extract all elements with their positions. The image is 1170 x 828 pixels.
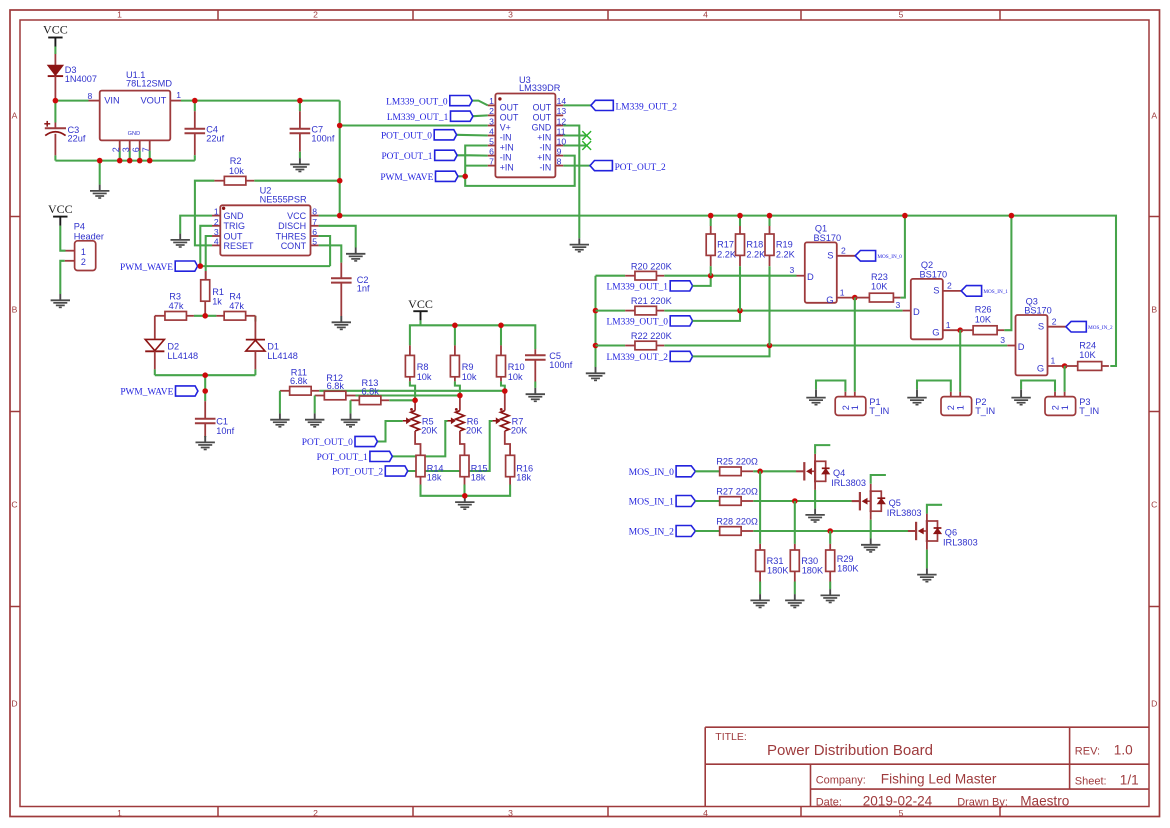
svg-text:100nf: 100nf — [311, 134, 334, 144]
svg-text:MOS_IN_0: MOS_IN_0 — [629, 467, 675, 478]
svg-text:5: 5 — [899, 808, 904, 818]
svg-text:PWM_WAVE: PWM_WAVE — [120, 263, 173, 273]
svg-text:POT_OUT_1: POT_OUT_1 — [381, 152, 432, 162]
svg-text:S: S — [933, 285, 939, 296]
svg-text:1nf: 1nf — [357, 284, 370, 294]
svg-text:3: 3 — [896, 300, 901, 310]
svg-text:MOS_IN_1: MOS_IN_1 — [629, 497, 675, 508]
svg-text:MOS_IN_0: MOS_IN_0 — [877, 254, 902, 260]
svg-text:1k: 1k — [212, 296, 222, 306]
svg-text:G: G — [932, 327, 939, 338]
svg-text:7: 7 — [489, 156, 494, 166]
svg-text:IRL3803: IRL3803 — [943, 538, 978, 548]
svg-text:R21 220K: R21 220K — [631, 296, 673, 306]
svg-text:-IN: -IN — [500, 132, 512, 142]
svg-text:10: 10 — [557, 136, 567, 146]
svg-text:-IN: -IN — [539, 142, 551, 152]
svg-text:4: 4 — [489, 126, 494, 136]
svg-text:Q6: Q6 — [945, 528, 957, 538]
svg-text:13: 13 — [557, 106, 567, 116]
svg-text:P4: P4 — [74, 222, 85, 232]
svg-text:TITLE:: TITLE: — [715, 731, 747, 743]
svg-text:5: 5 — [312, 236, 317, 246]
svg-text:10K: 10K — [1079, 350, 1096, 360]
svg-text:POT_OUT_2: POT_OUT_2 — [615, 163, 666, 173]
svg-text:1: 1 — [176, 90, 181, 100]
svg-text:Date:: Date: — [816, 796, 842, 808]
svg-text:GND: GND — [128, 131, 140, 137]
svg-text:LM339_OUT_1: LM339_OUT_1 — [387, 113, 449, 123]
svg-text:2.2K: 2.2K — [776, 249, 796, 259]
svg-text:3: 3 — [1000, 335, 1005, 345]
svg-text:6.8k: 6.8k — [327, 381, 345, 391]
svg-text:LM339_OUT_1: LM339_OUT_1 — [607, 283, 669, 293]
svg-text:POT_OUT_0: POT_OUT_0 — [302, 438, 353, 448]
svg-text:NE555PSR: NE555PSR — [260, 195, 307, 205]
svg-text:OUT: OUT — [500, 112, 519, 122]
svg-text:Power Distribution Board: Power Distribution Board — [767, 742, 933, 759]
svg-text:10K: 10K — [975, 314, 992, 324]
svg-text:BS170: BS170 — [1024, 306, 1052, 316]
svg-text:7: 7 — [141, 147, 151, 152]
svg-text:C: C — [1151, 500, 1157, 510]
svg-text:8: 8 — [88, 91, 93, 101]
svg-text:RESET: RESET — [224, 241, 255, 251]
svg-text:R20 220K: R20 220K — [631, 261, 673, 271]
svg-text:R10: R10 — [508, 362, 525, 372]
svg-text:T_IN: T_IN — [975, 406, 995, 416]
svg-text:100nf: 100nf — [549, 360, 572, 370]
svg-text:B: B — [12, 305, 18, 315]
svg-text:Fishing Led Master: Fishing Led Master — [881, 772, 997, 787]
svg-text:22uf: 22uf — [206, 134, 224, 144]
svg-text:4: 4 — [703, 10, 708, 20]
svg-text:-IN: -IN — [500, 153, 512, 163]
svg-text:MOS_IN_1: MOS_IN_1 — [983, 289, 1008, 295]
svg-text:2: 2 — [111, 147, 121, 152]
svg-text:2.2K: 2.2K — [746, 249, 766, 259]
svg-text:REV:: REV: — [1075, 745, 1100, 757]
svg-text:2: 2 — [81, 257, 86, 267]
svg-text:T_IN: T_IN — [869, 406, 889, 416]
svg-text:LL4148: LL4148 — [167, 351, 198, 361]
svg-text:OUT: OUT — [533, 112, 552, 122]
svg-text:1: 1 — [81, 247, 86, 257]
svg-text:R24: R24 — [1079, 340, 1096, 350]
svg-text:D: D — [1151, 698, 1157, 708]
svg-text:20K: 20K — [511, 425, 528, 435]
svg-text:8: 8 — [312, 207, 317, 217]
svg-text:7: 7 — [312, 217, 317, 227]
svg-text:3: 3 — [508, 808, 513, 818]
svg-text:OUT: OUT — [500, 102, 519, 112]
svg-text:R27 220Ω: R27 220Ω — [716, 486, 758, 496]
svg-text:R30: R30 — [801, 556, 818, 566]
svg-text:180K: 180K — [767, 565, 789, 575]
svg-text:R25 220Ω: R25 220Ω — [716, 457, 758, 467]
svg-text:2: 2 — [1052, 316, 1057, 326]
svg-text:MOS_IN_2: MOS_IN_2 — [629, 527, 675, 538]
svg-text:Sheet:: Sheet: — [1075, 775, 1107, 787]
svg-text:10k: 10k — [417, 372, 432, 382]
svg-text:VCC: VCC — [408, 297, 433, 311]
svg-text:2.2K: 2.2K — [717, 249, 737, 259]
svg-text:Q4: Q4 — [833, 468, 845, 478]
svg-text:10k: 10k — [229, 166, 244, 176]
svg-text:Maestro: Maestro — [1020, 794, 1069, 809]
svg-text:11: 11 — [557, 126, 566, 136]
svg-text:D: D — [913, 306, 920, 317]
svg-text:R17: R17 — [717, 240, 734, 250]
svg-text:47k: 47k — [169, 301, 184, 311]
svg-text:T_IN: T_IN — [1079, 406, 1099, 416]
svg-text:R29: R29 — [837, 554, 854, 564]
svg-text:6.8k: 6.8k — [362, 386, 380, 396]
svg-text:6: 6 — [131, 147, 141, 152]
svg-text:2: 2 — [1050, 405, 1060, 410]
svg-text:2: 2 — [313, 10, 318, 20]
svg-text:Company:: Company: — [816, 774, 866, 786]
svg-text:PWM_WAVE: PWM_WAVE — [380, 173, 433, 183]
svg-text:4: 4 — [703, 808, 708, 818]
svg-text:47k: 47k — [229, 301, 244, 311]
svg-text:C: C — [11, 500, 17, 510]
svg-text:VCC: VCC — [287, 211, 307, 221]
svg-text:1: 1 — [214, 207, 219, 217]
svg-text:180K: 180K — [802, 565, 824, 575]
svg-text:1N4007: 1N4007 — [65, 74, 97, 84]
svg-text:10k: 10k — [462, 372, 477, 382]
svg-text:PWM_WAVE: PWM_WAVE — [120, 388, 173, 398]
svg-text:78L12SMD: 78L12SMD — [126, 78, 172, 88]
svg-text:Q5: Q5 — [889, 498, 901, 508]
svg-text:1: 1 — [1060, 405, 1070, 410]
svg-text:VOUT: VOUT — [140, 96, 166, 106]
svg-text:1: 1 — [946, 320, 951, 330]
svg-text:Drawn By:: Drawn By: — [957, 796, 1008, 808]
svg-text:3: 3 — [121, 147, 131, 152]
svg-text:2: 2 — [947, 281, 952, 291]
svg-text:18k: 18k — [471, 472, 486, 482]
svg-text:BS170: BS170 — [814, 233, 842, 243]
svg-text:R18: R18 — [746, 240, 763, 250]
svg-text:OUT: OUT — [533, 102, 552, 112]
svg-text:12: 12 — [557, 116, 567, 126]
svg-text:+IN: +IN — [500, 142, 514, 152]
svg-text:D: D — [807, 271, 814, 282]
svg-text:18k: 18k — [427, 472, 442, 482]
svg-text:VIN: VIN — [104, 96, 120, 106]
svg-text:3: 3 — [489, 116, 494, 126]
svg-text:B: B — [1151, 305, 1157, 315]
svg-text:S: S — [1038, 320, 1044, 331]
svg-text:BS170: BS170 — [920, 270, 948, 280]
svg-text:V+: V+ — [500, 122, 511, 132]
svg-text:1: 1 — [117, 808, 122, 818]
svg-text:8: 8 — [557, 156, 562, 166]
svg-text:14: 14 — [557, 96, 567, 106]
svg-text:S: S — [827, 249, 833, 260]
svg-text:1: 1 — [117, 10, 122, 20]
svg-text:A: A — [1151, 111, 1157, 121]
svg-text:POT_OUT_0: POT_OUT_0 — [381, 132, 432, 142]
svg-text:4: 4 — [214, 236, 219, 246]
svg-text:-IN: -IN — [539, 163, 551, 173]
svg-text:R28 220Ω: R28 220Ω — [716, 516, 758, 526]
svg-text:2: 2 — [313, 808, 318, 818]
svg-text:MOS_IN_2: MOS_IN_2 — [1088, 325, 1113, 331]
svg-text:5: 5 — [899, 10, 904, 20]
svg-text:+IN: +IN — [537, 132, 551, 142]
svg-text:10k: 10k — [508, 372, 523, 382]
svg-text:R19: R19 — [776, 240, 793, 250]
svg-text:POT_OUT_1: POT_OUT_1 — [317, 453, 368, 463]
svg-text:VCC: VCC — [48, 202, 73, 216]
svg-text:LM339_OUT_2: LM339_OUT_2 — [607, 353, 669, 363]
svg-text:20K: 20K — [466, 425, 483, 435]
svg-text:R23: R23 — [871, 272, 888, 282]
svg-text:+IN: +IN — [537, 153, 551, 163]
svg-text:1: 1 — [1051, 356, 1056, 366]
svg-text:LM339_OUT_2: LM339_OUT_2 — [616, 103, 678, 113]
svg-text:LM339_OUT_0: LM339_OUT_0 — [386, 97, 448, 107]
svg-text:R31: R31 — [767, 556, 784, 566]
svg-text:Header: Header — [74, 231, 104, 241]
svg-text:1: 1 — [850, 405, 860, 410]
svg-text:1: 1 — [840, 287, 845, 297]
svg-text:2: 2 — [841, 246, 846, 256]
svg-text:D: D — [1018, 341, 1025, 352]
svg-text:18k: 18k — [516, 472, 531, 482]
svg-text:10K: 10K — [871, 282, 888, 292]
svg-text:GND: GND — [532, 122, 552, 132]
svg-text:2: 2 — [489, 106, 494, 116]
svg-text:1: 1 — [489, 96, 494, 106]
svg-text:20K: 20K — [421, 425, 438, 435]
svg-text:1: 1 — [956, 405, 966, 410]
svg-text:3: 3 — [508, 10, 513, 20]
svg-text:VCC: VCC — [43, 23, 68, 37]
svg-text:6: 6 — [489, 146, 494, 156]
svg-text:LM339_OUT_0: LM339_OUT_0 — [607, 318, 669, 328]
svg-text:R8: R8 — [417, 362, 429, 372]
svg-text:22uf: 22uf — [68, 133, 86, 143]
svg-text:IRL3803: IRL3803 — [887, 508, 922, 518]
svg-text:R9: R9 — [462, 362, 474, 372]
svg-text:R22 220K: R22 220K — [631, 331, 673, 341]
svg-text:A: A — [12, 111, 18, 121]
svg-text:1.0: 1.0 — [1114, 743, 1133, 758]
svg-text:2: 2 — [214, 217, 219, 227]
svg-text:R2: R2 — [230, 156, 242, 166]
svg-text:TRIG: TRIG — [224, 221, 246, 231]
svg-text:6.8k: 6.8k — [290, 376, 308, 386]
svg-text:5: 5 — [489, 136, 494, 146]
svg-text:10nf: 10nf — [216, 426, 234, 436]
svg-text:D: D — [11, 698, 17, 708]
svg-text:GND: GND — [224, 211, 245, 221]
svg-text:G: G — [826, 294, 833, 305]
svg-text:3: 3 — [790, 265, 795, 275]
svg-text:1/1: 1/1 — [1120, 773, 1139, 788]
svg-text:G: G — [1037, 362, 1044, 373]
svg-text:R26: R26 — [975, 305, 992, 315]
svg-text:2019-02-24: 2019-02-24 — [863, 794, 933, 809]
svg-text:DISCH: DISCH — [278, 221, 306, 231]
svg-text:LM339DR: LM339DR — [519, 83, 561, 93]
svg-text:IRL3803: IRL3803 — [831, 478, 866, 488]
svg-text:+IN: +IN — [500, 163, 514, 173]
svg-text:180K: 180K — [837, 563, 859, 573]
svg-text:CONT: CONT — [281, 241, 307, 251]
svg-text:POT_OUT_2: POT_OUT_2 — [332, 468, 383, 478]
svg-text:9: 9 — [557, 146, 562, 156]
svg-text:LL4148: LL4148 — [267, 351, 298, 361]
